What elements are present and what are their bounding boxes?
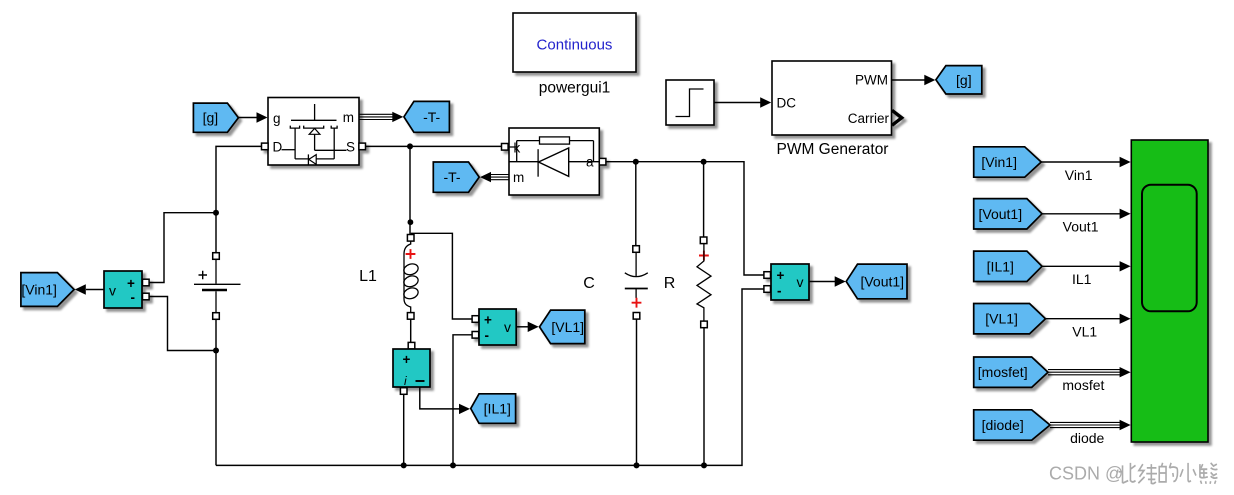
junction dot resistor top	[701, 159, 707, 165]
mosfet icon: D rail	[282, 149, 296, 151]
wire mosfet S to diode k	[366, 145, 502, 147]
wire step to PWM generator	[714, 102, 762, 104]
svg-text:L1: L1	[359, 268, 377, 285]
battery bottom port	[213, 313, 220, 320]
mosfet icon: body arrow triangle	[309, 128, 320, 134]
svg-text:-: -	[485, 328, 490, 343]
node dot battery bottom branch	[213, 348, 219, 354]
goto tag [VL1]	[540, 310, 585, 344]
mosfet icon: S rail	[315, 149, 347, 151]
svg-text:[VL1]: [VL1]	[551, 319, 584, 335]
goto tag [IL1]	[471, 394, 516, 424]
wire IL1 to scope	[1042, 265, 1121, 267]
diode icon: cathode bar	[537, 149, 539, 177]
mosfet icon: body diode bar	[307, 154, 309, 164]
svg-text:-: -	[777, 284, 782, 299]
current measurement block	[393, 349, 430, 388]
left rail below battery	[215, 320, 217, 465]
step source block	[666, 80, 714, 125]
wire VL1 to scope	[1046, 318, 1121, 320]
mosfet icon: gate lead	[314, 104, 316, 120]
wire mosfet to scope	[1048, 369, 1121, 371]
svg-text:[Vout1]: [Vout1]	[860, 273, 904, 289]
triple signal mosfet m to goto -T-	[360, 113, 396, 115]
svg-text:-T-: -T-	[443, 169, 460, 185]
svg-text:-T-: -T-	[423, 109, 440, 125]
wire Vout1 to scope	[1042, 213, 1121, 215]
wire inductor to current meter	[410, 319, 412, 343]
mosfet icon: middle leg	[314, 134, 316, 150]
diode icon: snubber top wire	[517, 141, 594, 162]
svg-text:R: R	[664, 275, 676, 292]
PWM Generator block	[772, 61, 902, 135]
diode block	[502, 128, 606, 195]
wire inductor to VL1 + (branch)	[411, 233, 472, 319]
from tag [g]	[193, 103, 238, 132]
svg-text:diode: diode	[1070, 430, 1104, 446]
wire mosfet D to left rail	[216, 146, 262, 252]
svg-text:[g]: [g]	[203, 110, 219, 126]
voltage measurement Vin (mirrored)	[104, 271, 149, 308]
from tag [Vout1]	[974, 199, 1042, 229]
svg-text:D: D	[273, 140, 283, 155]
wire Vout v out to [Vout1]	[809, 281, 836, 283]
goto tag [g]	[936, 66, 982, 94]
wire Vin1 to scope	[1041, 161, 1120, 163]
from tag [VL1]	[974, 304, 1046, 334]
svg-text:[g]: [g]	[956, 72, 972, 88]
svg-text:+: +	[127, 276, 135, 291]
goto tag -T- (mosfet m)	[404, 101, 450, 132]
junction dot at switch node	[407, 143, 413, 149]
svg-text:powergui1: powergui1	[539, 80, 611, 97]
mosfet block	[262, 98, 366, 166]
wire resistor to bottom rail	[703, 328, 705, 466]
mosfet icon: body diode triangle	[309, 155, 316, 165]
mosfet D port	[262, 143, 269, 150]
inductor bottom port	[407, 313, 414, 320]
wire VL1 v out to [VL1] tag	[516, 326, 528, 328]
svg-text:[mosfet]: [mosfet]	[978, 364, 1028, 380]
goto tag [Vout1]	[846, 264, 907, 299]
svg-text:+: +	[484, 313, 492, 328]
red polarity + above resistor	[699, 251, 709, 261]
svg-text:m: m	[513, 170, 524, 185]
wire current meter i out to [IL1]	[420, 387, 460, 409]
svg-text:PWM Generator: PWM Generator	[777, 141, 889, 158]
wire diode a to output corner	[606, 162, 764, 275]
svg-text:IL1: IL1	[1072, 271, 1092, 287]
junction dots bottom rail	[401, 462, 407, 468]
bottom ground rail	[216, 289, 764, 465]
watermark CJK glyph strokes	[1119, 463, 1218, 484]
dc voltage source symbol	[194, 259, 241, 312]
mosfet icon: right leg	[333, 128, 335, 159]
red polarity + above inductor	[406, 249, 416, 259]
scope block	[1131, 140, 1208, 442]
svg-text:[IL1]: [IL1]	[987, 258, 1014, 274]
current measurement meter top port	[408, 342, 415, 349]
mosfet icon: gate bar	[291, 119, 337, 121]
wire Vin meter v out to [Vin1]	[86, 289, 104, 291]
svg-text:mosfet: mosfet	[1062, 377, 1104, 393]
diode k port	[502, 144, 509, 151]
battery top port	[213, 253, 220, 260]
svg-text:v: v	[504, 319, 511, 335]
svg-text:[Vin1]: [Vin1]	[981, 154, 1017, 170]
diode icon: k stub and vertical	[509, 141, 517, 162]
junction dot cap top	[633, 159, 639, 165]
svg-text:C: C	[583, 275, 595, 292]
wire rail to resistor	[703, 162, 705, 237]
svg-text:Carrier: Carrier	[848, 111, 890, 126]
wire rail to capacitor	[635, 162, 637, 246]
goto tag -T- (diode m, mirrored)	[433, 162, 479, 192]
capacitor bottom port	[633, 313, 640, 320]
svg-text:+: +	[777, 268, 785, 283]
from tag [IL1]	[974, 251, 1042, 281]
capacitor top port	[633, 246, 640, 253]
junction dot above inductor	[408, 219, 414, 225]
triple signal diode m to goto -T-	[491, 174, 510, 176]
wire battery+ to Vin meter +	[149, 213, 216, 283]
wire VL1 - down to bottom rail	[453, 335, 472, 466]
voltage measurement VL1	[472, 309, 516, 345]
svg-text:+: +	[403, 352, 411, 367]
resistor top port	[700, 237, 707, 244]
diode icon: triangle	[539, 148, 569, 176]
svg-text:[Vin1]: [Vin1]	[21, 282, 57, 298]
wire from [g] to mosfet gate	[238, 117, 258, 119]
capacitor C symbol	[625, 252, 648, 298]
svg-text:[VL1]: [VL1]	[985, 311, 1018, 327]
powergui block	[513, 13, 636, 72]
goto tag [Vin1] (mirrored)	[21, 273, 74, 307]
wire diode to scope	[1050, 421, 1121, 423]
wire battery- to Vin meter -	[149, 297, 216, 351]
wire PWM output to goto g	[892, 79, 926, 81]
svg-text:Vin1: Vin1	[1065, 167, 1093, 183]
svg-text:v: v	[109, 283, 116, 299]
svg-text:S: S	[346, 140, 355, 155]
resistor bottom port	[701, 321, 708, 328]
mosfet icon: left leg	[294, 128, 296, 159]
from tag [mosfet]	[974, 357, 1048, 387]
diode icon: snubber resistor	[540, 137, 570, 144]
svg-text:DC: DC	[777, 96, 797, 111]
svg-text:Continuous: Continuous	[537, 37, 613, 54]
mosfet icon: bottom rail	[295, 158, 334, 160]
inductor L1 coil	[402, 241, 419, 312]
svg-text:PWM: PWM	[855, 73, 888, 88]
from tag [Vin1]	[974, 147, 1041, 177]
svg-text:g: g	[273, 111, 281, 126]
svg-text:[diode]: [diode]	[982, 417, 1024, 433]
resistor R zigzag	[697, 244, 711, 321]
wire current meter to bottom rail	[403, 394, 405, 465]
mosfet S port	[359, 143, 366, 150]
diode icon: main rail	[509, 161, 599, 163]
svg-text:i: i	[404, 374, 407, 388]
svg-text:[IL1]: [IL1]	[484, 401, 511, 417]
inductor top port	[407, 235, 414, 242]
wire capacitor to bottom rail	[636, 319, 638, 465]
svg-text:[Vout1]: [Vout1]	[979, 206, 1023, 222]
svg-text:v: v	[797, 274, 804, 290]
svg-text:m: m	[343, 110, 354, 125]
current meter bottom port	[400, 388, 407, 395]
svg-text:CSDN @: CSDN @	[1049, 464, 1123, 484]
diode a port	[599, 158, 606, 165]
mosfet icon: channel segments with end ticks	[290, 126, 299, 129]
svg-text:Vout1: Vout1	[1063, 219, 1099, 235]
node dot battery top branch	[213, 210, 219, 216]
svg-text:-: -	[131, 290, 136, 305]
svg-text:VL1: VL1	[1072, 324, 1097, 340]
wire switch node down to inductor	[409, 146, 411, 234]
red polarity + below capacitor	[632, 298, 642, 308]
voltage measurement Vout	[764, 264, 809, 300]
from tag [diode]	[974, 410, 1050, 440]
